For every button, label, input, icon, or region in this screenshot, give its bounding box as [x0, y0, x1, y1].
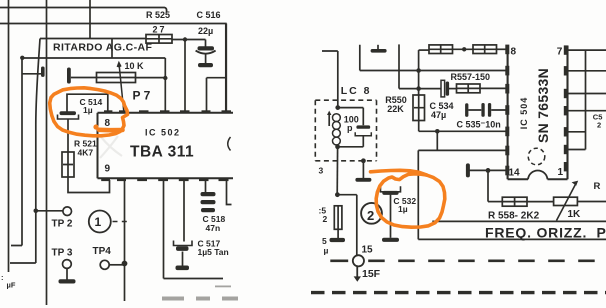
svg-text::: : — [1, 273, 4, 282]
svg-text:15F: 15F — [362, 268, 381, 280]
svg-text:P 7: P 7 — [133, 89, 151, 103]
svg-text:47n: 47n — [206, 223, 221, 233]
svg-text:SN 76533N: SN 76533N — [535, 68, 551, 143]
svg-text:C 535⁻10n: C 535⁻10n — [457, 119, 501, 129]
svg-text:4K7: 4K7 — [78, 148, 94, 158]
svg-text:TP 3: TP 3 — [52, 248, 73, 259]
svg-text:5: 5 — [322, 236, 327, 246]
svg-text:22µ: 22µ — [198, 26, 213, 36]
svg-text:FREQ. ORIZZ. P: FREQ. ORIZZ. P — [485, 224, 606, 240]
svg-text:C 516: C 516 — [197, 10, 221, 20]
svg-text:R557-150: R557-150 — [451, 72, 491, 82]
svg-text:p: p — [347, 123, 353, 133]
svg-text:µ: µ — [324, 245, 329, 255]
svg-text:TP4: TP4 — [93, 246, 112, 257]
svg-text:47µ: 47µ — [431, 110, 446, 120]
svg-text:IC 504: IC 504 — [519, 97, 529, 130]
svg-text:22K: 22K — [387, 104, 404, 114]
svg-text:3: 3 — [319, 166, 324, 176]
svg-text:1µ: 1µ — [398, 204, 408, 214]
svg-text:TBA 311: TBA 311 — [130, 144, 194, 161]
svg-text:14: 14 — [509, 167, 521, 178]
svg-text:1: 1 — [558, 167, 564, 178]
svg-text:2: 2 — [367, 208, 374, 223]
svg-text:8: 8 — [105, 118, 111, 129]
svg-text:7: 7 — [557, 46, 563, 57]
svg-text:1µ5 Tan: 1µ5 Tan — [198, 247, 229, 257]
svg-text:10 K: 10 K — [125, 61, 145, 71]
svg-text:R: R — [594, 181, 601, 192]
svg-text:8: 8 — [511, 47, 517, 58]
svg-text:µF: µF — [7, 281, 16, 290]
svg-text:LC 8: LC 8 — [341, 85, 372, 97]
svg-text:RITARDO AG.C-AF: RITARDO AG.C-AF — [53, 42, 153, 54]
svg-text:1µ: 1µ — [83, 105, 93, 115]
svg-text:R 525: R 525 — [146, 10, 170, 20]
svg-text:IC 502: IC 502 — [145, 128, 181, 138]
svg-text:15: 15 — [362, 244, 374, 255]
svg-text:2: 2 — [597, 120, 601, 129]
svg-text:2: 2 — [323, 214, 328, 224]
svg-text:9: 9 — [105, 164, 111, 175]
svg-text:1: 1 — [95, 215, 102, 229]
svg-text:1K: 1K — [568, 209, 582, 220]
svg-text:TP 2: TP 2 — [52, 219, 73, 230]
svg-text:27: 27 — [153, 25, 167, 35]
svg-text:R 558- 2K2: R 558- 2K2 — [488, 211, 540, 222]
